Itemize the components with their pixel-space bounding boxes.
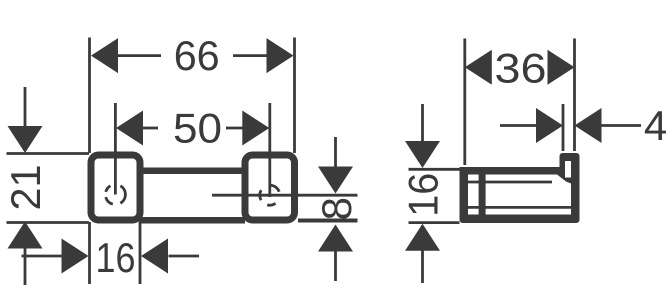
svg-text:8: 8 — [313, 197, 360, 220]
svg-text:16: 16 — [96, 234, 136, 281]
svg-text:66: 66 — [174, 32, 220, 79]
svg-text:21: 21 — [2, 165, 49, 211]
svg-text:36: 36 — [495, 45, 547, 92]
svg-text:16: 16 — [399, 173, 446, 217]
svg-text:50: 50 — [173, 105, 222, 152]
svg-text:4: 4 — [644, 102, 667, 149]
